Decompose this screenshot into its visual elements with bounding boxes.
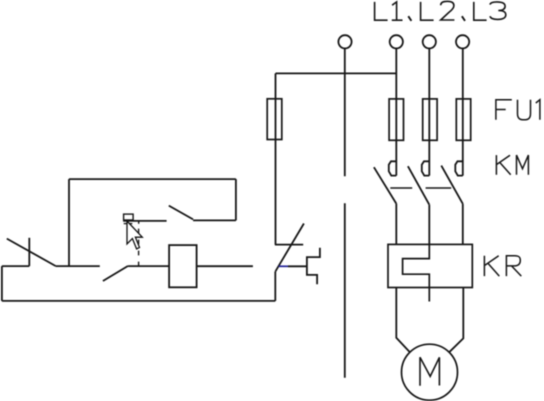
wire: blue highlighted segment [279,265,288,267]
wire: phase 1 to KR box [395,204,397,245]
KM linkage dash 1 [390,187,412,189]
fuse FU1-a [389,99,403,140]
terminal circle T2 (L1) [390,35,403,48]
label KM [496,155,528,175]
KR trip contact: blade [275,224,304,272]
contactor KM main contact 3: fixed hook [455,161,463,175]
wire: KR box to motor right lead [449,288,463,353]
KM aux contact: left wire [123,220,167,222]
label FU1 [496,100,540,120]
wire: start to coil [128,265,169,267]
contactor KM main contact 3: blade [441,166,463,204]
wire: center line upper segment [344,49,346,177]
thermal relay KR box [388,244,472,287]
motor M letter [420,357,439,386]
KM aux contact: right wire [193,219,236,221]
start button SB2: actuator dashed link [138,229,140,266]
wire: phase L2 vertical [428,49,430,176]
fuse FU2 (control) [267,99,282,140]
stop button SB1: fixed stub [28,238,30,266]
contactor KM main contact 2: blade [408,166,429,205]
label KR [484,256,521,276]
terminal circle T1 [338,35,351,48]
contactor KM main contact 1: blade [374,167,396,203]
contactor KM main contact 2: fixed hook [422,161,430,175]
wire: phase L1 vertical [395,49,397,176]
mouse cursor [127,221,142,249]
wire: phase 3 to KR box [462,204,464,245]
KM aux contact: terminal tick [138,221,140,224]
wire: center line lower segment [344,203,346,378]
latch branch: right vertical [235,179,237,220]
wire: blade to trip mechanism [288,265,307,267]
latch branch: vertical at x=69 [68,179,70,266]
stop button SB1: blade (NC) [7,239,56,266]
terminal circle T4 (L3) [456,35,469,48]
KM linkage dash 2 [426,187,452,189]
wire: coil to KR contact [197,265,253,267]
terminal circle T3 (L2) [423,35,436,48]
fuse FU1-c [456,99,470,140]
control frame: bottom wire [2,300,275,302]
wire: phase 2 to KR box [428,205,430,245]
KR trip contact: top bar [275,244,303,246]
wire: control branch vertical [275,73,277,244]
wire: top horizontal to control branch [276,72,397,74]
wire: KR box to motor left lead [396,288,410,353]
label L1,L2,L3 [375,1,506,21]
wire: stop to start [56,265,100,267]
contactor KM main contact 1: fixed hook [389,161,397,175]
stop button SB1: left wire [2,265,29,267]
start button SB2: blade (NO) [103,266,128,281]
start button SB2: cap square [124,214,134,220]
motor M circle [402,344,458,400]
KR trip mechanism zigzag [307,248,320,284]
wire: phase L3 vertical [462,49,464,176]
start button SB2: cap shadow line [124,223,133,225]
contactor coil KM [169,245,197,287]
KR trip contact: lower wire to bottom frame [274,272,276,301]
control frame: left vertical [1,266,3,301]
fuse FU1-b [423,99,437,140]
KR heater element [403,244,430,301]
latch branch: top wire [69,178,236,180]
KM aux contact: blade (NO, open) [169,206,193,220]
